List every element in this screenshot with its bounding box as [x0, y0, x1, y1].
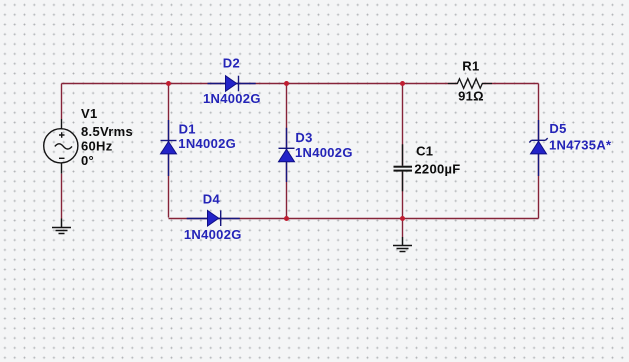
svg-text:1N4002G: 1N4002G	[203, 91, 261, 106]
svg-text:1N4002G: 1N4002G	[178, 136, 236, 151]
svg-text:8.5Vrms: 8.5Vrms	[81, 124, 133, 139]
svg-text:D2: D2	[223, 56, 240, 71]
svg-text:2200µF: 2200µF	[414, 161, 460, 176]
svg-text:R1: R1	[462, 59, 479, 74]
svg-text:60Hz: 60Hz	[81, 138, 113, 153]
svg-text:1N4735A*: 1N4735A*	[549, 138, 612, 153]
svg-text:C1: C1	[416, 144, 433, 159]
svg-text:D3: D3	[295, 130, 312, 145]
svg-text:D1: D1	[179, 122, 196, 137]
svg-text:1N4002G: 1N4002G	[295, 145, 353, 160]
svg-text:91Ω: 91Ω	[458, 88, 484, 103]
svg-text:0°: 0°	[81, 153, 94, 168]
svg-text:V1: V1	[81, 106, 98, 121]
svg-text:1N4002G: 1N4002G	[184, 227, 242, 242]
svg-text:D4: D4	[203, 192, 221, 207]
svg-text:D5: D5	[549, 121, 566, 136]
